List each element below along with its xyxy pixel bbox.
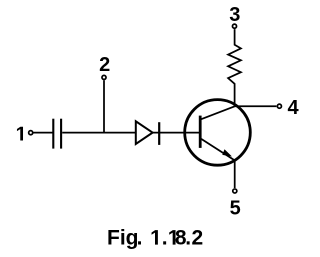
svg-text:2: 2 — [99, 54, 110, 76]
svg-text:.: . — [137, 227, 143, 250]
svg-text:.: . — [162, 227, 168, 250]
svg-text:5: 5 — [230, 198, 241, 220]
svg-text:Fig: Fig — [107, 227, 139, 250]
svg-text:3: 3 — [229, 4, 240, 26]
svg-text:2: 2 — [192, 227, 204, 250]
svg-text:.: . — [185, 227, 191, 250]
svg-text:4: 4 — [287, 97, 299, 119]
